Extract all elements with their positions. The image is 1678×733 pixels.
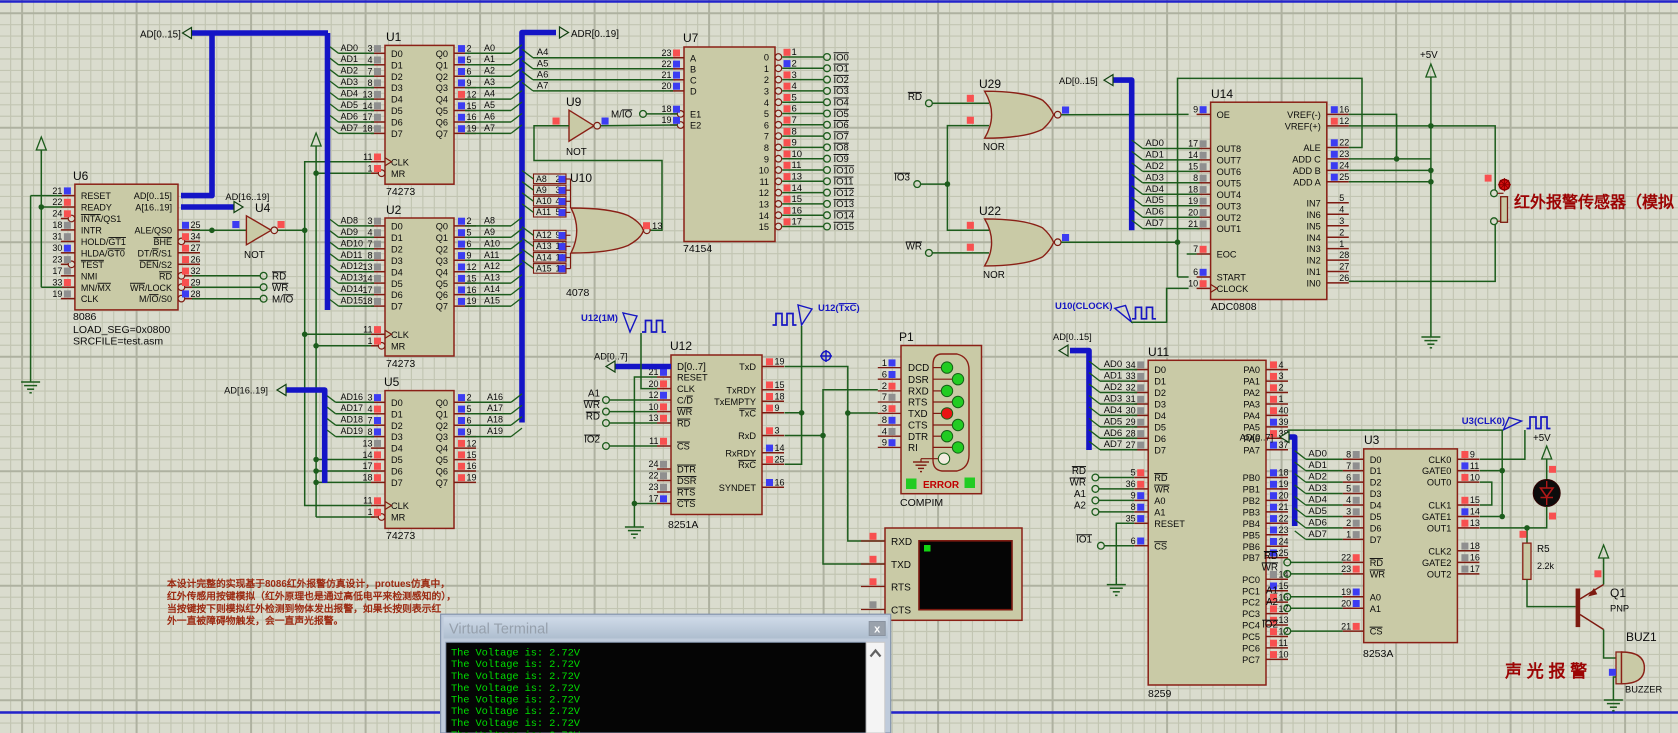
svg-text:2: 2 [1339,227,1344,237]
svg-text:Q1: Q1 [436,60,448,70]
svg-text:NOR: NOR [983,142,1005,153]
svg-text:4: 4 [882,426,887,437]
svg-text:14: 14 [362,450,372,460]
svg-text:A1: A1 [484,54,495,64]
svg-text:15: 15 [467,101,477,111]
svg-text:IO8: IO8 [834,143,849,154]
svg-text:U10(CLOCK): U10(CLOCK) [1055,301,1113,312]
svg-text:Q0: Q0 [436,222,448,232]
svg-text:AD3: AD3 [341,77,359,87]
svg-text:33: 33 [1126,371,1136,381]
svg-text:AD[0..7]: AD[0..7] [594,352,628,362]
svg-text:32: 32 [191,266,201,276]
wires U2 outputs to ADR bus [465,215,522,306]
svg-text:SRCFILE=test.asm: SRCFILE=test.asm [73,336,163,348]
svg-text:A0: A0 [484,43,495,53]
serial port P1 COMPIM [878,330,982,509]
clock generator U10(CLOCK) [1055,301,1156,322]
svg-text:8: 8 [367,427,372,437]
svg-text:8: 8 [367,250,372,260]
svg-text:A18: A18 [487,415,503,425]
svg-text:30: 30 [52,243,62,253]
svg-text:MR: MR [391,513,406,523]
svg-text:A15: A15 [536,263,552,273]
svg-text:M/IO/S0: M/IO/S0 [139,294,172,304]
svg-text:Q0: Q0 [436,398,448,408]
svg-text:14: 14 [362,101,372,111]
svg-text:15: 15 [467,273,477,283]
svg-text:21: 21 [52,186,62,196]
processor U6 8086 [52,169,200,348]
no-ERC marker [820,350,832,362]
svg-text:25: 25 [191,220,201,230]
inverter U4 [244,201,285,261]
svg-text:16: 16 [467,112,477,122]
svg-text:U1: U1 [386,30,402,44]
svg-text:27: 27 [1339,262,1349,272]
svg-text:A12: A12 [536,230,552,240]
nor gate U22 [967,204,1069,281]
svg-text:CLK2: CLK2 [1428,546,1451,556]
svg-text:IO13: IO13 [834,199,855,210]
wire ALE to U4 [192,221,246,233]
svg-text:AD[0..15]: AD[0..15] [1053,332,1092,342]
svg-text:外一直被障碍物触发，会一直声光报警。: 外一直被障碍物触发，会一直声光报警。 [166,614,343,627]
svg-text:9: 9 [882,438,887,449]
svg-text:1: 1 [792,47,797,58]
svg-text:A2: A2 [1074,500,1086,511]
svg-text:Q6: Q6 [436,290,448,300]
svg-text:A11: A11 [536,207,551,217]
wire MR rail (ties MR high) [313,150,374,517]
svg-text:5: 5 [467,404,472,414]
terminal RD to U3 [1264,551,1343,566]
svg-text:RESET: RESET [677,373,708,383]
svg-text:AD15: AD15 [341,296,364,306]
terminal A2 to U11 [1074,500,1134,515]
svg-text:PA5: PA5 [1243,423,1260,433]
svg-text:18: 18 [1188,185,1198,195]
svg-text:NOR: NOR [983,270,1005,281]
svg-text:TxRDY: TxRDY [726,385,756,395]
svg-text:23: 23 [52,255,62,265]
svg-text:23: 23 [648,482,658,492]
svg-text:INTA/QS1: INTA/QS1 [81,214,121,224]
svg-text:CTS: CTS [891,605,911,616]
svg-text:2: 2 [1279,383,1284,393]
svg-text:OE: OE [1217,110,1230,120]
svg-text:B: B [690,64,696,74]
svg-text:34: 34 [191,232,201,242]
svg-text:PC2: PC2 [1242,598,1260,608]
svg-text:24: 24 [648,459,658,469]
svg-text:Q7: Q7 [436,302,448,312]
svg-text:D2: D2 [391,421,403,431]
svg-text:A10: A10 [484,238,500,248]
wire TxD to P1 and terminal RXD [785,367,886,542]
svg-text:1: 1 [882,358,887,369]
svg-text:A1: A1 [588,389,600,400]
svg-text:AD2: AD2 [1308,472,1326,483]
label infrared sensor text [1514,193,1674,212]
svg-text:20: 20 [648,379,658,389]
svg-text:16: 16 [467,461,477,471]
svg-text:A1: A1 [1266,585,1278,596]
svg-text:AD2: AD2 [1104,382,1122,393]
svg-text:1: 1 [1279,394,1284,404]
svg-text:D4: D4 [391,444,403,454]
svg-text:26: 26 [191,255,201,265]
svg-text:PC5: PC5 [1242,632,1260,642]
svg-text:21: 21 [1188,219,1198,229]
svg-text:A: A [690,53,697,63]
terminal RD of U6 [192,271,286,282]
svg-text:4: 4 [1279,360,1284,370]
svg-text:1: 1 [367,163,372,173]
svg-text:WR: WR [1262,562,1278,573]
svg-text:3: 3 [1339,216,1344,226]
terminal IO1 to U11 [1076,534,1134,549]
svg-text:16: 16 [1470,553,1480,563]
svg-text:OUT2: OUT2 [1217,213,1242,223]
svg-text:IO0: IO0 [834,52,849,63]
inverter U9 [553,95,609,158]
svg-text:HLDA/GT0: HLDA/GT0 [81,248,125,258]
buzzer BUZ1 [1609,630,1663,695]
svg-text:23: 23 [1339,149,1349,159]
svg-text:IO2: IO2 [834,75,849,86]
svg-text:OUT1: OUT1 [1217,224,1242,234]
svg-text:2: 2 [467,216,472,226]
svg-text:NOT: NOT [244,250,265,261]
svg-text:18: 18 [1279,468,1289,478]
svg-text:1: 1 [367,336,372,346]
svg-text:IN2: IN2 [1306,256,1320,266]
svg-text:7: 7 [792,115,797,126]
svg-text:U4: U4 [255,201,271,215]
svg-text:24: 24 [1279,536,1289,546]
svg-text:Q3: Q3 [436,432,448,442]
svg-text:WR: WR [584,400,600,411]
svg-text:74273: 74273 [386,358,415,370]
svg-text:ADD A: ADD A [1293,177,1321,187]
wires AD0-AD7 from bus to U3 [1295,449,1343,540]
svg-text:30: 30 [1126,406,1136,416]
svg-text:AD[0..7]: AD[0..7] [1240,433,1274,443]
timer U3 8253A [1341,433,1480,660]
svg-text:11: 11 [363,325,372,335]
ground near U6 [21,375,40,393]
svg-text:U3: U3 [1364,433,1380,447]
svg-text:22: 22 [648,471,658,481]
wire RESET to ground [31,196,62,375]
svg-text:PA2: PA2 [1243,388,1260,398]
resistor R5 2.2k [1523,543,1555,579]
svg-text:4: 4 [1339,204,1344,214]
svg-text:The Voltage is: 2.72V: The Voltage is: 2.72V [451,695,581,707]
svg-text:RTS: RTS [677,488,695,498]
svg-text:A11: A11 [484,250,499,260]
svg-text:A2: A2 [1266,597,1278,608]
svg-text:D1: D1 [391,60,403,70]
svg-text:15: 15 [467,450,477,460]
usart U12 8251A [648,339,784,531]
svg-text:The Voltage is: 2.72V: The Voltage is: 2.72V [451,671,581,683]
svg-text:AD6: AD6 [1145,207,1163,218]
svg-text:Q7: Q7 [436,478,448,488]
svg-text:IN7: IN7 [1306,198,1320,208]
svg-text:U7: U7 [683,31,699,45]
svg-text:13: 13 [648,413,658,423]
svg-text:OUT5: OUT5 [1217,178,1242,188]
svg-text:28: 28 [1339,250,1349,260]
svg-text:A3: A3 [484,77,495,87]
svg-text:D6: D6 [1154,434,1166,444]
svg-text:22: 22 [1341,553,1351,563]
svg-text:19: 19 [467,473,477,483]
svg-text:D7: D7 [1370,535,1382,545]
svg-text:A16: A16 [487,392,503,402]
svg-text:20: 20 [1188,207,1198,217]
svg-text:4: 4 [1346,495,1351,505]
svg-text:D7: D7 [391,478,403,488]
svg-text:11: 11 [759,177,769,187]
svg-text:COMPIM: COMPIM [900,497,943,509]
svg-text:+5V: +5V [1420,50,1438,61]
svg-text:CTS: CTS [677,499,695,509]
terminal WR of U6 [192,283,288,294]
svg-text:PB3: PB3 [1243,508,1260,518]
svg-text:PB2: PB2 [1243,496,1260,506]
svg-text:D1: D1 [391,233,403,243]
svg-text:12: 12 [467,89,477,99]
ground below U12 [625,520,644,538]
svg-text:9: 9 [1131,491,1136,501]
terminal A1 to U11 [1074,489,1134,504]
wires U1 outputs to ADR bus [465,43,522,134]
wire RxD to P1 RXD and terminal TXD [785,390,886,564]
svg-text:CLK: CLK [677,384,696,394]
svg-text:Q0: Q0 [436,49,448,59]
svg-text:DEN/S2: DEN/S2 [139,260,172,270]
svg-text:AD1: AD1 [1308,460,1326,471]
decoder U7 74154 [661,31,781,255]
svg-text:IO2: IO2 [584,435,600,446]
svg-text:x: x [874,624,881,636]
svg-text:24: 24 [1339,161,1349,171]
svg-text:D7: D7 [391,302,403,312]
svg-text:NOT: NOT [566,147,587,158]
svg-text:AD16: AD16 [341,392,364,402]
wire U4 output to CLK rail [278,228,308,234]
clock generator U3(CLK0) [1462,416,1551,430]
wire +5V rail to ground [1428,81,1434,330]
svg-text:RESET: RESET [81,191,112,201]
svg-text:D6: D6 [391,467,403,477]
svg-text:13: 13 [759,200,769,210]
svg-text:LOAD_SEG=0x0800: LOAD_SEG=0x0800 [73,324,170,336]
svg-text:PC7: PC7 [1242,655,1260,665]
svg-text:RxRDY: RxRDY [725,448,756,458]
svg-text:红外传感用按键模拟（红外原理也是通过高低电平来检测感知的），: 红外传感用按键模拟（红外原理也是通过高低电平来检测感知的）， [167,589,456,602]
svg-text:DSR: DSR [908,375,929,386]
ground below U11 [1107,578,1126,596]
svg-text:U10: U10 [570,171,592,185]
svg-text:25: 25 [1279,548,1289,558]
svg-text:PB6: PB6 [1243,542,1260,552]
wires U5 outputs to ADR bus [465,392,522,437]
svg-text:19: 19 [661,115,671,125]
svg-text:CLOCK: CLOCK [1217,284,1250,294]
svg-text:2: 2 [764,75,769,85]
svg-text:IO15: IO15 [834,222,855,233]
svg-text:34: 34 [1126,360,1136,370]
svg-text:RxD: RxD [738,431,756,441]
svg-text:PB7: PB7 [1243,553,1260,563]
led D1 red [1533,466,1560,520]
wire U29 output to U14 OE [1061,113,1189,115]
svg-text:The Voltage is: 2.72V: The Voltage is: 2.72V [451,648,581,660]
svg-text:A8: A8 [536,174,547,184]
svg-text:15: 15 [1470,495,1480,505]
svg-text:ADD B: ADD B [1293,166,1321,176]
svg-text:GATE1: GATE1 [1422,512,1451,522]
svg-text:DT/R/S1: DT/R/S1 [137,248,172,258]
svg-text:18: 18 [52,220,62,230]
power terminal MR rail [311,133,321,150]
svg-text:OUT8: OUT8 [1217,144,1242,154]
svg-text:PNP: PNP [1610,604,1629,614]
svg-text:1: 1 [1339,239,1344,249]
svg-text:AD3: AD3 [1308,483,1326,494]
svg-text:ERROR: ERROR [923,480,960,491]
svg-text:3: 3 [367,216,372,226]
wire buzzer to ground [1613,677,1616,693]
svg-text:TxD: TxD [739,362,756,372]
svg-text:23: 23 [1279,525,1289,535]
svg-text:D3: D3 [391,83,403,93]
wire TxC RxC clock net [785,326,805,464]
svg-text:9: 9 [792,138,797,149]
svg-text:17: 17 [648,494,658,504]
svg-text:AD5: AD5 [1145,195,1163,206]
svg-text:BUZZER: BUZZER [1625,685,1662,695]
svg-text:声 光 报 警: 声 光 报 警 [1504,661,1587,681]
interrupt controller U11 8259 [1126,345,1289,700]
svg-text:U2: U2 [386,203,402,217]
wires AD0-AD7 from bus to U11 [1089,359,1137,450]
svg-text:A6: A6 [484,112,495,122]
terminal IO3 [894,173,947,188]
svg-text:AD5: AD5 [1308,506,1326,517]
wires AD0-AD7 into U1 [330,43,374,134]
svg-text:5: 5 [764,109,769,119]
svg-text:10: 10 [648,402,658,412]
svg-text:IO3: IO3 [834,86,849,97]
svg-text:CLK0: CLK0 [1428,455,1451,465]
svg-text:CS: CS [1154,541,1167,551]
svg-text:10: 10 [759,166,769,176]
svg-text:D0: D0 [1370,455,1382,465]
svg-text:ALE/QS0: ALE/QS0 [134,226,172,236]
svg-text:Q4: Q4 [436,95,448,105]
svg-text:6: 6 [792,104,797,115]
svg-text:VREF(+): VREF(+) [1285,122,1321,132]
svg-text:A1: A1 [1074,489,1086,500]
svg-text:74273: 74273 [386,186,415,198]
svg-text:U3(CLK0): U3(CLK0) [1462,416,1505,427]
svg-text:9: 9 [775,403,780,413]
svg-text:21: 21 [1279,502,1289,512]
svg-text:PB0: PB0 [1243,473,1260,483]
power terminal near U6 [36,137,46,154]
wire generator to GATE0 GATE1 [1288,430,1505,519]
svg-text:ADR[0..19]: ADR[0..19] [571,29,619,40]
svg-text:21: 21 [1341,621,1351,631]
svg-text:RESET: RESET [1154,519,1185,529]
svg-text:M/IO: M/IO [611,109,633,120]
svg-text:D[0..7]: D[0..7] [677,362,706,373]
svg-text:AD11: AD11 [341,250,363,260]
svg-text:18: 18 [775,391,785,401]
svg-text:ADD C: ADD C [1292,155,1321,165]
svg-text:11: 11 [363,152,372,162]
svg-text:Q4: Q4 [436,267,448,277]
svg-text:TXD: TXD [908,409,928,420]
svg-text:D4: D4 [1154,411,1166,421]
svg-text:D3: D3 [1154,400,1166,410]
svg-text:AD7: AD7 [1145,218,1163,229]
svg-text:AD0: AD0 [341,43,359,53]
svg-text:3: 3 [1279,371,1284,381]
svg-text:A14: A14 [536,252,552,262]
wire ADD B [1349,169,1431,171]
terminal MIO of U6 [192,294,294,305]
svg-text:AD3: AD3 [1104,394,1122,405]
svg-text:13: 13 [792,172,803,183]
svg-text:13: 13 [362,262,372,272]
svg-text:AD0: AD0 [1145,138,1163,149]
svg-text:AD6: AD6 [1104,428,1122,439]
gate U10 4078 [522,171,663,300]
svg-text:7: 7 [764,132,769,142]
svg-text:D7: D7 [391,129,403,139]
svg-text:U29: U29 [979,77,1001,91]
svg-text:23: 23 [661,48,671,58]
svg-text:26: 26 [1339,273,1349,283]
svg-text:8: 8 [1346,449,1351,459]
svg-text:A10: A10 [536,196,552,206]
svg-text:RD: RD [1264,551,1278,562]
svg-text:A14: A14 [484,284,500,294]
svg-text:ADC0808: ADC0808 [1211,301,1257,313]
svg-text:40: 40 [1279,406,1289,416]
wire VREF- to ADD C [1349,114,1400,161]
svg-text:14: 14 [1470,507,1480,517]
svg-text:A1: A1 [1370,604,1381,614]
svg-text:IO7: IO7 [834,131,849,142]
svg-text:AD[0..15]: AD[0..15] [1059,76,1098,86]
svg-text:OUT3: OUT3 [1217,201,1242,211]
terminal A1 to U12 [588,389,657,404]
latch U5 74273 [362,375,476,542]
svg-text:RD: RD [1370,558,1384,568]
svg-text:14: 14 [1188,150,1198,160]
svg-text:12: 12 [1339,116,1349,126]
svg-text:DSR: DSR [677,476,697,486]
svg-text:D6: D6 [391,118,403,128]
svg-text:4: 4 [792,81,797,92]
